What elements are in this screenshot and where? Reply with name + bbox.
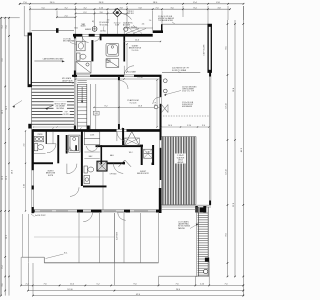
svg-text:5'-8: 5'-8 bbox=[138, 7, 141, 9]
svg-text:ACCESS: ACCESS bbox=[123, 24, 131, 27]
closet arc c bbox=[65, 146, 70, 151]
top extension lines bbox=[29, 6, 31, 33]
interior wall x66 bbox=[66, 135, 68, 154]
svg-text:14'-2: 14'-2 bbox=[6, 106, 8, 110]
right deck hatch bbox=[162, 137, 194, 205]
X in pocket closet bbox=[124, 138, 139, 145]
north wall lower seg2 bbox=[127, 129, 162, 132]
south exterior door arcs bbox=[83, 212, 92, 221]
svg-text:BEDROOM 'B': BEDROOM 'B' bbox=[137, 173, 149, 175]
powder toilet bbox=[34, 144, 38, 151]
svg-text:@ 24" O.C. TYP: @ 24" O.C. TYP bbox=[182, 91, 194, 93]
svg-text:S.D.: S.D. bbox=[64, 252, 68, 254]
leader from deck note bbox=[164, 91, 181, 96]
bottom extension lines bbox=[20, 257, 22, 285]
bottom dimension row C bbox=[33, 295, 243, 297]
right window bar bbox=[208, 24, 211, 72]
deck corner posts bbox=[28, 124, 31, 129]
svg-text:4'-8: 4'-8 bbox=[217, 7, 220, 9]
svg-text:5'-2: 5'-2 bbox=[96, 284, 99, 286]
right deck note box bbox=[175, 154, 186, 164]
door arc bath top bbox=[82, 36, 88, 42]
mid wall seg3 bbox=[134, 75, 162, 77]
hall door arc lower bbox=[113, 164, 123, 174]
wall top B step bbox=[153, 30, 163, 33]
svg-text:19'-4: 19'-4 bbox=[233, 88, 235, 92]
svg-text:10'-0: 10'-0 bbox=[168, 125, 172, 127]
svg-text:10'-2: 10'-2 bbox=[2, 110, 4, 114]
svg-text:9'-0 CLG: 9'-0 CLG bbox=[132, 50, 139, 52]
svg-text:9'-0: 9'-0 bbox=[133, 284, 136, 286]
door tag circle playroom bbox=[154, 105, 158, 109]
left margin connector to window bbox=[23, 6, 25, 36]
east wall top post bbox=[209, 73, 211, 77]
svg-text:SUITE: SUITE bbox=[48, 175, 54, 177]
svg-text:7'-0: 7'-0 bbox=[224, 284, 227, 286]
svg-text:3'-8: 3'-8 bbox=[99, 12, 102, 14]
wall top A seg3 bbox=[100, 34, 153, 37]
closet arc d bbox=[70, 146, 75, 151]
hall to playroom door arc bbox=[120, 81, 128, 89]
attic leader lines bbox=[128, 27, 135, 34]
top-right thin line bbox=[162, 23, 209, 25]
closet shelves lower bbox=[84, 132, 100, 145]
svg-text:W.I.C.: W.I.C. bbox=[129, 152, 134, 154]
top dimension row 2 bbox=[30, 8, 230, 10]
stair boxed label bbox=[93, 111, 99, 115]
mid wall seg2 bbox=[90, 75, 124, 77]
svg-text:3'-0 x 5'-0: 3'-0 x 5'-0 bbox=[114, 23, 121, 25]
svg-text:29'-0: 29'-0 bbox=[11, 170, 13, 174]
bedroomA dim line bbox=[124, 41, 160, 43]
left dimension columns bbox=[0, 18, 2, 296]
left wood deck hatch bbox=[32, 83, 75, 125]
svg-text:8'-2: 8'-2 bbox=[105, 106, 108, 108]
closet diagonal hangers bbox=[126, 29, 139, 34]
svg-text:12'-0: 12'-0 bbox=[2, 176, 4, 180]
svg-text:3'-4: 3'-4 bbox=[2, 26, 4, 29]
interior wall x152 bbox=[152, 145, 154, 165]
svg-text:EGRESS: EGRESS bbox=[85, 29, 91, 31]
svg-text:W/ STD RUNGS: W/ STD RUNGS bbox=[178, 226, 191, 228]
interior extra partitions lower wing bbox=[52, 132, 54, 144]
svg-text:11'-0: 11'-0 bbox=[70, 284, 74, 286]
closet wall y145 bbox=[96, 145, 141, 147]
post at ladder top bbox=[200, 208, 205, 213]
NE corner post bbox=[161, 24, 163, 33]
closet bifold V 2 bbox=[119, 160, 132, 167]
svg-text:22'-8: 22'-8 bbox=[233, 203, 235, 207]
svg-text:2'-0: 2'-0 bbox=[155, 7, 158, 9]
svg-text:2x6 SILL: 2x6 SILL bbox=[100, 31, 106, 33]
stair direction arrow bbox=[81, 87, 83, 101]
linen shelves bbox=[144, 149, 153, 158]
bath east wall upper bbox=[100, 34, 102, 40]
south windows sill marks bbox=[40, 210, 52, 212]
svg-text:1'-6: 1'-6 bbox=[149, 20, 152, 22]
interior wall x58 bbox=[57, 135, 59, 163]
svg-text:2x6: 2x6 bbox=[142, 24, 145, 26]
deck label leader bbox=[46, 105, 54, 108]
door arc north lower bbox=[117, 132, 127, 142]
diamond curved leader bbox=[122, 13, 132, 19]
left window bar bbox=[28, 33, 31, 86]
svg-text:2'-8: 2'-8 bbox=[107, 20, 110, 22]
west wall lower solid bbox=[32, 129, 34, 170]
left inner dim column bbox=[25, 131, 27, 211]
south wall post5 bbox=[156, 210, 162, 213]
east playroom wall seg2 bbox=[160, 104, 162, 140]
svg-text:42'-0: 42'-0 bbox=[136, 294, 140, 296]
svg-text:2'-4: 2'-4 bbox=[25, 284, 28, 286]
svg-text:21'-10: 21'-10 bbox=[137, 77, 142, 79]
guest bedA closet lines bbox=[124, 27, 153, 29]
west wall upper top post bbox=[74, 34, 76, 39]
left window bar bottom cap bbox=[28, 84, 32, 87]
svg-text:10'-10: 10'-10 bbox=[225, 103, 227, 108]
playroom dim line bbox=[76, 78, 161, 80]
bath partition x92 bbox=[91, 40, 93, 61]
svg-text:13'-8: 13'-8 bbox=[138, 106, 142, 108]
east wall bottom post bbox=[209, 201, 211, 206]
svg-text:6'-4: 6'-4 bbox=[2, 266, 4, 269]
window lines west wall lower bbox=[31, 129, 33, 213]
note cantilever leader line bbox=[34, 60, 63, 62]
circle tag on top wall bbox=[92, 27, 97, 32]
bottom dimension row A bbox=[21, 284, 243, 286]
powder counter bbox=[34, 137, 44, 142]
diamond tag bbox=[113, 8, 121, 16]
pocket closet rect bedroomB bbox=[124, 138, 139, 145]
svg-text:26'-4: 26'-4 bbox=[176, 289, 180, 291]
suite bath south wall bbox=[83, 186, 107, 188]
shower stall master bbox=[106, 59, 119, 68]
right deck frame bbox=[162, 136, 197, 138]
svg-text:2'-10: 2'-10 bbox=[99, 7, 103, 9]
ladder rails bbox=[198, 207, 200, 277]
svg-text:8'-4: 8'-4 bbox=[193, 7, 196, 9]
patio outline bbox=[22, 256, 45, 258]
left margin leader arrow bbox=[13, 101, 23, 107]
hall wall y163 bbox=[103, 162, 124, 164]
window lines playroom east wall bbox=[159, 76, 161, 211]
svg-text:12'-0: 12'-0 bbox=[135, 40, 139, 42]
header line right room bbox=[162, 72, 200, 74]
window lines mid wall bbox=[73, 74, 162, 76]
svg-text:8'-6: 8'-6 bbox=[225, 46, 227, 49]
east playroom wall seg4 bbox=[159, 188, 162, 213]
svg-text:TEMP: TEMP bbox=[81, 24, 85, 26]
stair rails bbox=[76, 84, 78, 131]
west wall lower corner bbox=[32, 207, 34, 213]
svg-text:3'-4: 3'-4 bbox=[202, 125, 205, 127]
svg-text:TOP, ALIGN W/ BM: TOP, ALIGN W/ BM bbox=[158, 19, 173, 22]
post linen wall end bbox=[152, 163, 154, 165]
svg-text:CLOS: CLOS bbox=[90, 135, 94, 137]
top dimension row 3 bbox=[76, 13, 128, 15]
patio left ext lines bbox=[22, 214, 24, 257]
svg-text:15'-9: 15'-9 bbox=[6, 176, 8, 180]
mid wall seg1 bbox=[72, 75, 77, 77]
svg-text:3'-0: 3'-0 bbox=[170, 7, 173, 9]
right window bar top cap bbox=[208, 24, 212, 27]
door arc deck east bbox=[153, 97, 160, 104]
interior wall x141 bbox=[141, 145, 143, 165]
canopy line over deck bbox=[32, 30, 75, 32]
west wall mid post bbox=[74, 71, 76, 78]
closet wall x101 bbox=[101, 145, 103, 164]
bath south wall bbox=[32, 162, 54, 164]
right window bar bottom cap bbox=[208, 70, 212, 73]
east wall window double segs ticks bbox=[160, 96, 161, 97]
wall top A seg1 bbox=[73, 34, 82, 37]
west wall lower mid post bbox=[32, 186, 34, 190]
bedroom door arc from suite bath wall bbox=[70, 187, 79, 196]
svg-text:3'-6: 3'-6 bbox=[2, 284, 4, 287]
master shower bbox=[76, 62, 91, 74]
svg-text:6'-2: 6'-2 bbox=[83, 12, 86, 14]
ladder rungs bbox=[198, 213, 209, 275]
interior wall x122 bbox=[122, 128, 124, 145]
closet bifold V 1 bbox=[125, 132, 139, 145]
svg-text:16'-10: 16'-10 bbox=[67, 289, 72, 291]
svg-text:5'-0: 5'-0 bbox=[41, 7, 44, 9]
playroom west wall post top bbox=[118, 77, 120, 80]
right room dim line bbox=[161, 126, 209, 128]
playroom west wall double line bbox=[117, 77, 119, 129]
svg-text:9'-0 CLG: 9'-0 CLG bbox=[130, 102, 137, 104]
svg-text:TYP OF 2: TYP OF 2 bbox=[127, 11, 134, 13]
svg-text:SLOPE: SLOPE bbox=[63, 114, 68, 116]
post at ladder base bbox=[205, 258, 209, 262]
dashed line edge above bbox=[163, 115, 209, 117]
svg-text:2'-10: 2'-10 bbox=[200, 284, 204, 286]
svg-text:5'-10: 5'-10 bbox=[187, 125, 191, 127]
svg-text:5 1/8 x 18 GLB: 5 1/8 x 18 GLB bbox=[182, 102, 193, 104]
svg-text:OVER 4x8 BMS: OVER 4x8 BMS bbox=[182, 89, 195, 91]
window lines east wall upper right bbox=[208, 73, 210, 206]
small dim y17 bbox=[57, 16, 76, 18]
patio posts bbox=[78, 213, 80, 263]
top dimension row 1 bbox=[20, 3, 244, 5]
post hall wall end bbox=[123, 162, 125, 165]
suite door arc bbox=[67, 164, 77, 174]
svg-text:7'-6: 7'-6 bbox=[43, 284, 46, 286]
small dim under north wall bbox=[34, 126, 75, 128]
south band right part bbox=[161, 204, 211, 206]
window lines top wall bbox=[73, 33, 153, 35]
window tag circles east bbox=[163, 79, 167, 83]
east playroom wall seg3 bbox=[160, 148, 162, 180]
svg-text:6'-10: 6'-10 bbox=[24, 184, 26, 188]
powder partition bbox=[46, 132, 47, 145]
svg-text:9'-8: 9'-8 bbox=[225, 233, 227, 236]
window lines north wall lower wing bbox=[33, 129, 161, 131]
suite bath counter bbox=[84, 176, 90, 184]
svg-text:16'-2: 16'-2 bbox=[6, 235, 8, 239]
dark opt box bbox=[97, 161, 107, 171]
window lines south wall bbox=[32, 209, 162, 211]
svg-text:FLUSH W/ JST: FLUSH W/ JST bbox=[182, 104, 193, 106]
svg-text:3'-2: 3'-2 bbox=[64, 7, 67, 9]
bowtie window symbol east playroom wall bbox=[162, 105, 169, 113]
door arc bedroomA bbox=[124, 66, 134, 76]
svg-text:ABOVE: ABOVE bbox=[178, 161, 185, 164]
south wall post4 bbox=[124, 210, 130, 213]
ladder top post right bbox=[203, 206, 206, 213]
svg-text:2'-0: 2'-0 bbox=[64, 15, 67, 17]
svg-text:4x4 POST: 4x4 POST bbox=[117, 232, 119, 240]
ladder top post left bbox=[195, 206, 198, 213]
north wall lower seg1 bbox=[33, 129, 117, 132]
svg-text:(2) 2x10 HDR: (2) 2x10 HDR bbox=[99, 22, 110, 24]
door arc powder bbox=[47, 144, 56, 153]
bottom dimension row B bbox=[28, 290, 243, 292]
playroom lower dim line bbox=[94, 106, 161, 108]
playroom west wall post bottom bbox=[118, 124, 120, 129]
south wall post1 bbox=[32, 210, 35, 213]
shower lower bbox=[69, 135, 81, 152]
svg-text:THIS FLR: THIS FLR bbox=[127, 13, 135, 15]
ladder circle bbox=[204, 269, 208, 273]
right dimension columns bbox=[227, 20, 229, 277]
svg-text:45'-0: 45'-0 bbox=[241, 148, 243, 152]
WOOD DECK label bbox=[54, 102, 68, 110]
svg-text:SLOPE TO DRAIN: SLOPE TO DRAIN bbox=[172, 69, 187, 72]
tick cluster north wall lower bbox=[52, 128, 53, 129]
bedroomA vertical dim bbox=[126, 44, 128, 72]
svg-text:4'-8: 4'-8 bbox=[24, 144, 26, 147]
south wall post2 bbox=[77, 210, 83, 213]
svg-text:6040: 6040 bbox=[74, 28, 78, 30]
deck left edge bbox=[31, 87, 33, 130]
bed outline guest bedroom B bbox=[131, 190, 149, 210]
tub bbox=[106, 43, 119, 56]
south wall post3 bbox=[91, 210, 102, 213]
left window bar top cap bbox=[28, 33, 32, 36]
interior wall x81 bbox=[81, 132, 83, 187]
post closet wall bbox=[140, 145, 143, 147]
X in linen bbox=[144, 149, 153, 158]
wall top A seg2 bbox=[89, 34, 95, 37]
deck label small box bbox=[63, 110, 70, 115]
suite bath toilet bbox=[84, 166, 94, 184]
svg-text:4x4 DF POST: 4x4 DF POST bbox=[35, 215, 46, 217]
svg-text:TYP: TYP bbox=[65, 112, 68, 114]
svg-text:7'-6: 7'-6 bbox=[175, 284, 178, 286]
circle tag attic bbox=[124, 27, 128, 31]
door arc hall top bbox=[95, 36, 100, 41]
faint patio mid line bbox=[34, 236, 114, 238]
bedroomA west wall bbox=[123, 36, 125, 62]
south band extra line bbox=[161, 208, 196, 210]
svg-text:10'-10: 10'-10 bbox=[225, 169, 227, 174]
closet door arc a bbox=[87, 146, 92, 151]
svg-text:2x6 T&G DECKING: 2x6 T&G DECKING bbox=[182, 86, 197, 88]
master bath toilet bbox=[77, 53, 80, 60]
playroom vertical dim bbox=[156, 80, 158, 127]
master bath counter bbox=[77, 41, 86, 51]
post window jamb bbox=[56, 28, 59, 33]
patio lower line bbox=[159, 275, 210, 277]
east playroom wall seg1 bbox=[160, 76, 162, 97]
svg-text:3'-8: 3'-8 bbox=[119, 7, 122, 9]
window lines west wall upper bbox=[73, 34, 75, 130]
svg-text:DECKING: DECKING bbox=[56, 108, 64, 110]
svg-text:1/8"/FT SLOPE: 1/8"/FT SLOPE bbox=[204, 45, 206, 56]
svg-text:OPT W/D: OPT W/D bbox=[110, 174, 118, 176]
stair treads bbox=[77, 81, 86, 130]
svg-text:W/ 2x6 SILL: W/ 2x6 SILL bbox=[100, 24, 109, 26]
svg-text:4'-2: 4'-2 bbox=[83, 7, 86, 9]
svg-text:2'-8: 2'-8 bbox=[6, 26, 8, 29]
west wall lower post bbox=[74, 126, 76, 132]
closet door arc b bbox=[92, 146, 97, 151]
post hall closet bbox=[75, 145, 77, 150]
svg-text:9'-0: 9'-0 bbox=[2, 59, 4, 62]
svg-text:PWDR: PWDR bbox=[38, 134, 44, 136]
